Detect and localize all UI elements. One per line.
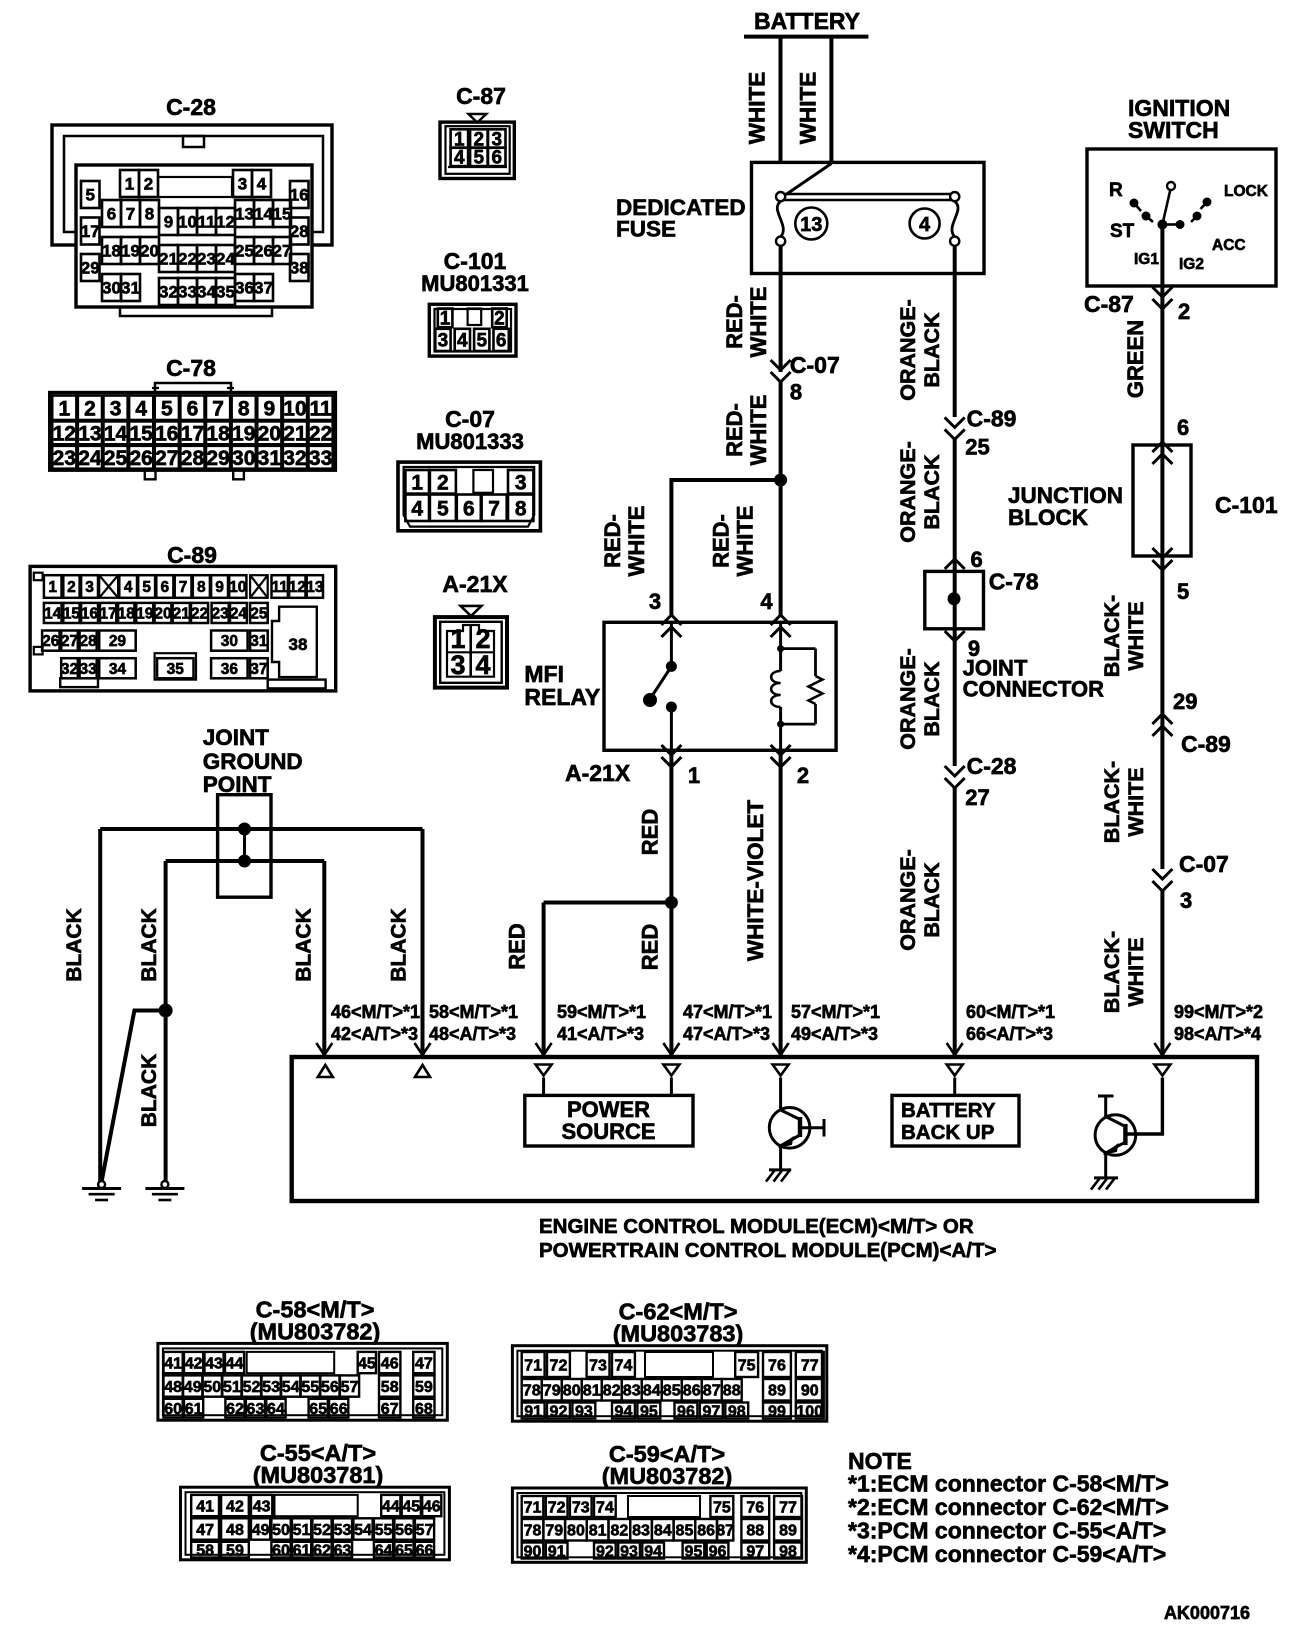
svg-text:26: 26 [42, 633, 60, 650]
C-58 pin 60 [164, 1399, 183, 1418]
C-62 pin 96 [675, 1403, 698, 1419]
C-89 pin 5 [138, 575, 155, 598]
MFI relay box [604, 622, 836, 750]
svg-text:91: 91 [548, 1543, 566, 1560]
svg-text:BLACK: BLACK [138, 908, 161, 982]
C-62 pin 87 [702, 1379, 722, 1401]
svg-text:65: 65 [395, 1542, 413, 1559]
svg-text:2: 2 [144, 175, 153, 194]
C-89 pin 24 [230, 603, 247, 623]
C-78 pin 31 [257, 446, 281, 469]
svg-text:5: 5 [474, 148, 485, 169]
transistor Q2 [1095, 1096, 1136, 1177]
C-89 pin 6 [156, 575, 173, 598]
ignition switch box [1087, 149, 1276, 286]
wire end fork at ECM [415, 1043, 431, 1055]
C-28 key slot [158, 177, 232, 197]
svg-text:10: 10 [283, 397, 306, 420]
wire to power source 2 [670, 1078, 673, 1096]
svg-text:6: 6 [971, 547, 983, 572]
C-59 pin 83 [630, 1519, 652, 1541]
svg-text:IG1: IG1 [1134, 251, 1159, 268]
svg-text:78: 78 [523, 1383, 541, 1400]
C-58 pin 49 [183, 1375, 202, 1396]
C-28 pin 23 [197, 245, 216, 272]
C-59 pin 84 [652, 1519, 674, 1541]
svg-text:32: 32 [61, 661, 78, 678]
svg-text:8: 8 [238, 397, 250, 420]
wire junction to relay pin 4 (RED-WHITE) [779, 480, 783, 616]
C-89 pin 12 [289, 575, 305, 598]
svg-text:80: 80 [563, 1383, 581, 1400]
svg-text:59: 59 [226, 1542, 244, 1559]
svg-text:C-101: C-101 [1215, 492, 1278, 518]
svg-text:13: 13 [78, 422, 101, 445]
svg-text:15: 15 [130, 422, 154, 445]
C-89 pin 7 [175, 575, 192, 598]
svg-text:17: 17 [81, 222, 100, 241]
svg-text:29: 29 [81, 259, 100, 278]
power source box [525, 1095, 693, 1146]
C-58 pin 62 [225, 1399, 244, 1418]
svg-text:4: 4 [475, 650, 490, 680]
svg-text:45: 45 [358, 1355, 376, 1372]
C-59 pin 71 [522, 1496, 544, 1517]
C-28 pin 35 [216, 278, 235, 305]
C-89 pin 23 [212, 603, 229, 623]
svg-text:C-78: C-78 [989, 569, 1039, 595]
svg-text:32: 32 [283, 447, 306, 470]
svg-text:55: 55 [375, 1522, 393, 1539]
svg-text:28: 28 [80, 633, 98, 650]
wire relay pin 1 down (RED) [669, 750, 673, 1057]
svg-text:15: 15 [273, 205, 292, 224]
svg-text:3: 3 [438, 331, 449, 352]
wire end fork at ECM [947, 1043, 963, 1055]
svg-text:59<M/T>*1: 59<M/T>*1 [557, 1002, 646, 1022]
C-59 pin 92 [594, 1543, 616, 1559]
wire junction block to C-89 (BLACK-WHITE) [1160, 556, 1164, 736]
svg-text:C-07: C-07 [790, 352, 840, 378]
ECM input pin mark [947, 1065, 963, 1076]
C-59 pin 78 [522, 1519, 544, 1541]
svg-text:WHITE: WHITE [796, 72, 821, 145]
connector C-89 housing [30, 566, 336, 691]
C-28 pin 33 [178, 278, 197, 305]
svg-text:8: 8 [790, 380, 802, 405]
svg-text:27: 27 [155, 447, 178, 470]
svg-text:46: 46 [423, 1498, 441, 1515]
svg-text:89: 89 [779, 1523, 797, 1540]
svg-text:38: 38 [289, 635, 308, 654]
node junction RED [665, 896, 678, 909]
svg-text:*1:ECM connector C-58<M/T>: *1:ECM connector C-58<M/T> [848, 1471, 1169, 1497]
C-55 pin 49 [251, 1518, 270, 1539]
svg-text:19: 19 [136, 606, 154, 623]
svg-text:8: 8 [197, 579, 206, 596]
wire ground B (BLACK) [164, 861, 168, 1182]
C-89 pin 1 [44, 575, 62, 598]
C-55 pin 41 [191, 1495, 219, 1516]
svg-text:81: 81 [583, 1383, 601, 1400]
svg-text:49: 49 [252, 1522, 270, 1539]
C-59 pin 88 [741, 1519, 769, 1541]
svg-text:SWITCH: SWITCH [1128, 117, 1219, 143]
svg-text:5: 5 [437, 497, 449, 520]
C-78 pin 18 [206, 421, 230, 444]
C-62 pin 97 [700, 1403, 723, 1419]
C-58 pin 58 [379, 1375, 400, 1396]
svg-text:ORANGE-: ORANGE- [896, 648, 920, 750]
wire ground C (BLACK) [322, 861, 326, 1057]
fuse 13 designator [795, 208, 827, 240]
junction block exit arrows [1152, 548, 1172, 558]
C-28 pin 29 [81, 254, 100, 281]
C-78 pin 8 [232, 396, 256, 421]
A-21X index mark [461, 606, 482, 616]
svg-text:71: 71 [524, 1357, 542, 1374]
svg-text:2: 2 [84, 397, 96, 420]
C-89 blocked cavity (X) right [250, 575, 268, 598]
svg-text:19: 19 [232, 422, 255, 445]
svg-text:10: 10 [178, 213, 197, 232]
relay coil [771, 622, 784, 750]
svg-text:20: 20 [140, 242, 159, 261]
svg-text:84: 84 [643, 1383, 661, 1400]
C-58 pin 55 [301, 1375, 320, 1396]
svg-text:62: 62 [313, 1542, 331, 1559]
C-78 pin 26 [129, 446, 153, 469]
wire end fork at ECM [536, 1043, 552, 1055]
svg-text:82: 82 [610, 1523, 628, 1540]
svg-text:86: 86 [697, 1523, 715, 1540]
C-78 pin 21 [283, 421, 307, 444]
C-58 pin 57 [340, 1375, 359, 1396]
svg-text:98: 98 [728, 1403, 746, 1420]
C-78 pin 19 [232, 421, 256, 444]
svg-text:4: 4 [454, 148, 465, 169]
C-78 pin 33 [309, 446, 333, 469]
svg-text:46<M/T>*1: 46<M/T>*1 [331, 1002, 420, 1022]
svg-text:9: 9 [164, 213, 173, 232]
svg-text:7: 7 [179, 579, 188, 596]
C-55 pin 42 [221, 1495, 249, 1516]
svg-text:BACK UP: BACK UP [901, 1121, 994, 1144]
C-78 pin 30 [232, 446, 256, 469]
C-58 pin 50 [203, 1375, 222, 1396]
C-89 pin 14 [44, 603, 62, 623]
svg-text:38: 38 [290, 259, 309, 278]
svg-text:4: 4 [919, 214, 931, 236]
svg-text:29: 29 [109, 633, 127, 650]
svg-text:26: 26 [130, 447, 153, 470]
battery backup box [892, 1095, 1019, 1146]
svg-text:20: 20 [258, 422, 281, 445]
C-62 key slot [645, 1352, 713, 1377]
svg-text:RED-: RED- [722, 403, 747, 457]
svg-text:72: 72 [548, 1499, 566, 1516]
svg-text:96: 96 [709, 1543, 727, 1560]
svg-text:57<M/T>*1: 57<M/T>*1 [791, 1002, 880, 1022]
connector C-101 housing [429, 304, 516, 356]
C-62 pin 88 [722, 1379, 742, 1401]
C-89 pin 25 [250, 603, 268, 623]
C-07 pin 7 [482, 495, 507, 522]
wire to transistor Q1 [779, 1078, 782, 1112]
C-89 pin 36 [211, 658, 248, 678]
svg-text:52: 52 [243, 1379, 261, 1396]
C-28 pin 27 [273, 237, 291, 264]
svg-text:BLACK: BLACK [920, 312, 944, 388]
C-58 pin 67 [379, 1399, 400, 1418]
C-62 pin 91 [522, 1403, 545, 1419]
joint connector exit arrow [945, 631, 965, 641]
svg-text:30: 30 [221, 633, 238, 650]
svg-text:88: 88 [746, 1523, 764, 1540]
svg-text:FUSE: FUSE [616, 217, 676, 242]
svg-text:50: 50 [203, 1379, 221, 1396]
wire end fork at ECM [1154, 1043, 1170, 1055]
C-62 pin 79 [542, 1379, 562, 1401]
svg-text:36: 36 [235, 279, 254, 298]
wire end fork at ECM [316, 1043, 332, 1055]
svg-text:4: 4 [760, 589, 773, 614]
svg-text:33: 33 [80, 661, 98, 678]
C-89 blocked cavity (X) left [99, 575, 118, 598]
C-07 key slot [473, 470, 493, 493]
connector crossing C-89 on BLACK-WHITE [1152, 714, 1172, 724]
C-58 pin 48 [164, 1375, 183, 1396]
C-28 pin 3 [233, 170, 252, 197]
svg-text:78: 78 [524, 1523, 542, 1540]
svg-text:94: 94 [615, 1403, 633, 1420]
svg-text:33: 33 [178, 283, 197, 302]
svg-text:63: 63 [247, 1401, 265, 1418]
svg-text:73: 73 [572, 1499, 590, 1516]
svg-text:56: 56 [395, 1522, 413, 1539]
wire fuse 13 to C-07 (RED-WHITE) [779, 246, 783, 372]
C-89 pin 35 housing [155, 653, 196, 679]
svg-text:3: 3 [515, 471, 527, 494]
C-87 index mark [468, 114, 486, 123]
C-101 pin 3 [435, 329, 450, 351]
wire relay pin 2 down (WHITE-VIOLET) [779, 750, 783, 1057]
svg-text:24: 24 [78, 447, 102, 470]
wire ground D (BLACK) [421, 829, 425, 1057]
C-28 pin 12 [216, 208, 235, 235]
wire C-07 to junction (RED-WHITE) [779, 382, 783, 480]
C-59 pin 85 [674, 1519, 696, 1541]
svg-text:4: 4 [124, 579, 133, 596]
relay pin 1 exit arrows [661, 745, 681, 755]
svg-text:54: 54 [282, 1379, 300, 1396]
svg-text:27: 27 [61, 633, 78, 650]
C-62 pin 71 [522, 1352, 545, 1377]
svg-text:53: 53 [262, 1379, 280, 1396]
svg-text:44: 44 [226, 1355, 244, 1372]
C-59 pin 72 [546, 1496, 568, 1517]
C-55 pin 58 [191, 1542, 219, 1558]
svg-text:2: 2 [797, 763, 809, 788]
svg-text:12: 12 [289, 579, 306, 596]
svg-text:51: 51 [293, 1522, 311, 1539]
C-62 pin 90 [796, 1379, 824, 1401]
C-62 pin 72 [547, 1352, 570, 1377]
svg-text:68: 68 [415, 1401, 433, 1418]
node joint connector [948, 592, 961, 605]
C-78 pin 24 [78, 446, 102, 469]
C-59 pin 75 [710, 1496, 733, 1517]
C-59 pin 79 [543, 1519, 565, 1541]
C-28 pin 26 [254, 237, 273, 264]
joint ground point link [238, 823, 251, 868]
svg-text:62: 62 [226, 1401, 244, 1418]
C-07 pin 1 [405, 470, 429, 494]
C-59 pin 82 [609, 1519, 631, 1541]
C-89 pin 10 [229, 575, 246, 598]
wire ignition to junction block (GREEN) [1160, 286, 1164, 445]
svg-text:C-87: C-87 [1084, 291, 1134, 317]
svg-text:65: 65 [309, 1401, 327, 1418]
connector A-21X housing [435, 617, 507, 688]
C-87 pin 3 [488, 129, 506, 148]
connector crossing C-07 on BLACK-WHITE [1152, 869, 1172, 879]
svg-text:GROUND: GROUND [203, 749, 303, 774]
svg-text:5: 5 [1177, 579, 1189, 604]
svg-text:49: 49 [184, 1379, 202, 1396]
C-87 pin 6 [488, 148, 506, 167]
C-55 pin 63 [333, 1542, 352, 1558]
svg-text:58: 58 [381, 1379, 399, 1396]
svg-text:37: 37 [250, 661, 267, 678]
C-58 pin 45 [358, 1352, 376, 1373]
svg-text:3: 3 [649, 589, 661, 614]
svg-text:91: 91 [524, 1403, 542, 1420]
C-59 pin 90 [522, 1543, 544, 1559]
svg-text:77: 77 [801, 1357, 819, 1374]
svg-text:3: 3 [110, 397, 122, 420]
svg-text:6: 6 [187, 397, 199, 420]
C-62 pin 83 [622, 1379, 642, 1401]
svg-text:WHITE: WHITE [745, 72, 770, 145]
svg-text:C-89: C-89 [167, 542, 217, 568]
node ground junction [159, 1004, 173, 1018]
svg-text:66: 66 [416, 1542, 434, 1559]
C-28 pin 16 [290, 181, 309, 208]
svg-text:WHITE-VIOLET: WHITE-VIOLET [743, 800, 768, 961]
ECM ground pin mark 2 [415, 1065, 430, 1077]
svg-text:37: 37 [254, 279, 273, 298]
C-62 pin 92 [547, 1403, 570, 1419]
C-28 pin 20 [140, 237, 159, 264]
svg-text:47<A/T>*3: 47<A/T>*3 [683, 1024, 770, 1044]
C-89 pin 28 [80, 631, 97, 651]
C-78 pin 11 [309, 396, 333, 421]
svg-text:58: 58 [196, 1542, 214, 1559]
C-59 pin 94 [642, 1543, 664, 1559]
C-87 pin 4 [451, 148, 469, 167]
wire end fork at ECM [773, 1043, 789, 1055]
svg-text:RED-: RED- [722, 295, 747, 349]
svg-text:RED: RED [505, 923, 530, 969]
svg-text:A-21X: A-21X [565, 760, 631, 786]
C-28 pin 28 [290, 218, 309, 245]
C-59 pin 74 [594, 1496, 616, 1517]
svg-text:14: 14 [104, 422, 128, 445]
svg-text:3: 3 [238, 175, 247, 194]
svg-text:1: 1 [440, 309, 451, 330]
C-55 pin 45 [402, 1495, 421, 1516]
C-28 pin 21 [159, 245, 178, 272]
C-78 pin 32 [283, 446, 307, 469]
C-28 pin 18 [102, 237, 121, 264]
C-78 pin 27 [155, 446, 179, 469]
ground bus top wire [100, 827, 422, 831]
C-58 pin 41 [164, 1352, 183, 1373]
svg-text:67: 67 [381, 1401, 399, 1418]
svg-text:43: 43 [253, 1498, 271, 1515]
svg-text:8: 8 [145, 205, 154, 224]
svg-text:ORANGE-: ORANGE- [896, 441, 920, 543]
C-55 pin 47 [191, 1518, 219, 1539]
ECM ground pin mark 1 [318, 1065, 333, 1077]
svg-text:80: 80 [567, 1523, 585, 1540]
C-62 pin 89 [763, 1379, 791, 1401]
svg-text:95: 95 [685, 1543, 703, 1560]
svg-text:24: 24 [216, 250, 235, 269]
node junction RED-WHITE [774, 474, 787, 487]
svg-text:5: 5 [86, 186, 95, 205]
svg-text:54: 54 [354, 1522, 372, 1539]
svg-text:57: 57 [416, 1522, 434, 1539]
svg-text:41: 41 [196, 1498, 214, 1515]
svg-text:72: 72 [550, 1357, 568, 1374]
svg-text:92: 92 [596, 1543, 614, 1560]
svg-text:17: 17 [100, 606, 117, 623]
C-89 pin 3 [81, 575, 98, 598]
svg-text:100: 100 [796, 1403, 823, 1420]
C-58 pin 51 [222, 1375, 241, 1396]
svg-text:3: 3 [1180, 888, 1192, 913]
C-55 pin 66 [415, 1542, 434, 1558]
svg-text:6: 6 [161, 579, 170, 596]
C-59 pin 77 [774, 1496, 802, 1517]
C-55 pin 50 [271, 1518, 290, 1539]
C-89 pin 32 [61, 658, 78, 678]
C-28 pin 15 [273, 200, 291, 227]
ECM input pin mark [1154, 1065, 1170, 1076]
ECM input pin mark [773, 1065, 789, 1076]
svg-text:1: 1 [125, 175, 134, 194]
C-59 pin 96 [707, 1543, 729, 1559]
C-55 pin 62 [312, 1542, 331, 1558]
C-28 pin 37 [254, 274, 273, 301]
C-28 pin 36 [235, 274, 254, 301]
relay pin 2 exit arrows [771, 745, 791, 755]
C-07 pin 8 [508, 495, 533, 522]
svg-text:66: 66 [330, 1401, 348, 1418]
svg-text:2: 2 [437, 471, 449, 494]
C-28 pin 30 [102, 274, 121, 301]
C-55 pin 44 [381, 1495, 400, 1516]
C-101 pin 4 [455, 329, 470, 351]
wire fuse 4 to C-89 (ORANGE-BLACK) [953, 246, 957, 417]
C-28 pin 32 [159, 278, 178, 305]
C-62 pin 80 [562, 1379, 582, 1401]
svg-text:74: 74 [596, 1499, 614, 1516]
svg-text:13: 13 [306, 579, 324, 596]
svg-text:BATTERY: BATTERY [754, 8, 860, 34]
